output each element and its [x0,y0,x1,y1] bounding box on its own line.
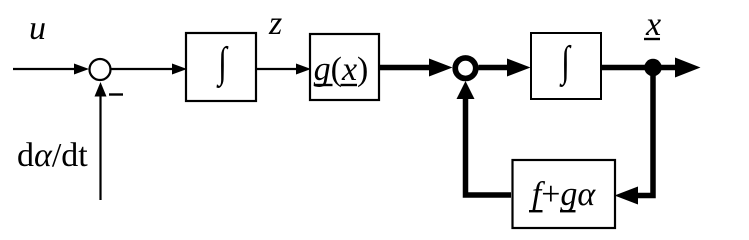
svg-text:f+gα: f+gα [532,176,597,213]
block f+g-alpha [513,160,616,228]
svg-text:x: x [645,6,661,43]
block g(x) [310,34,379,100]
wire: node down and left into f+g-alpha block (thick) [615,68,654,205]
wire: f+g-alpha output left and up into S2 (thick) [457,81,512,195]
wire: integrator 2 to output arrow (thick) [601,58,701,78]
wire: input u arrow [13,64,89,75]
node: pick-off point on x [644,59,662,77]
summing junction S1 [90,59,111,80]
wire: integrator 1 to g(x) [256,64,311,75]
wire: S2 to integrator 2 (thick) [479,59,531,77]
summing junction S2 [455,58,476,79]
svg-text:g(x): g(x) [314,51,369,88]
svg-text:u: u [29,10,46,47]
wire: d-alpha/dt arrow into S1 [95,82,107,200]
minus sign at S1 [109,93,123,95]
wire: g(x) to summing junction S2 (thick) [379,59,453,77]
integrator block U2 [531,33,601,99]
integrator block U1 [186,33,256,101]
svg-text:z: z [268,5,282,42]
svg-text:dα/dt: dα/dt [17,137,88,174]
label x (underlined) [644,6,661,43]
wire: S1 to integrator 1 [111,64,188,75]
